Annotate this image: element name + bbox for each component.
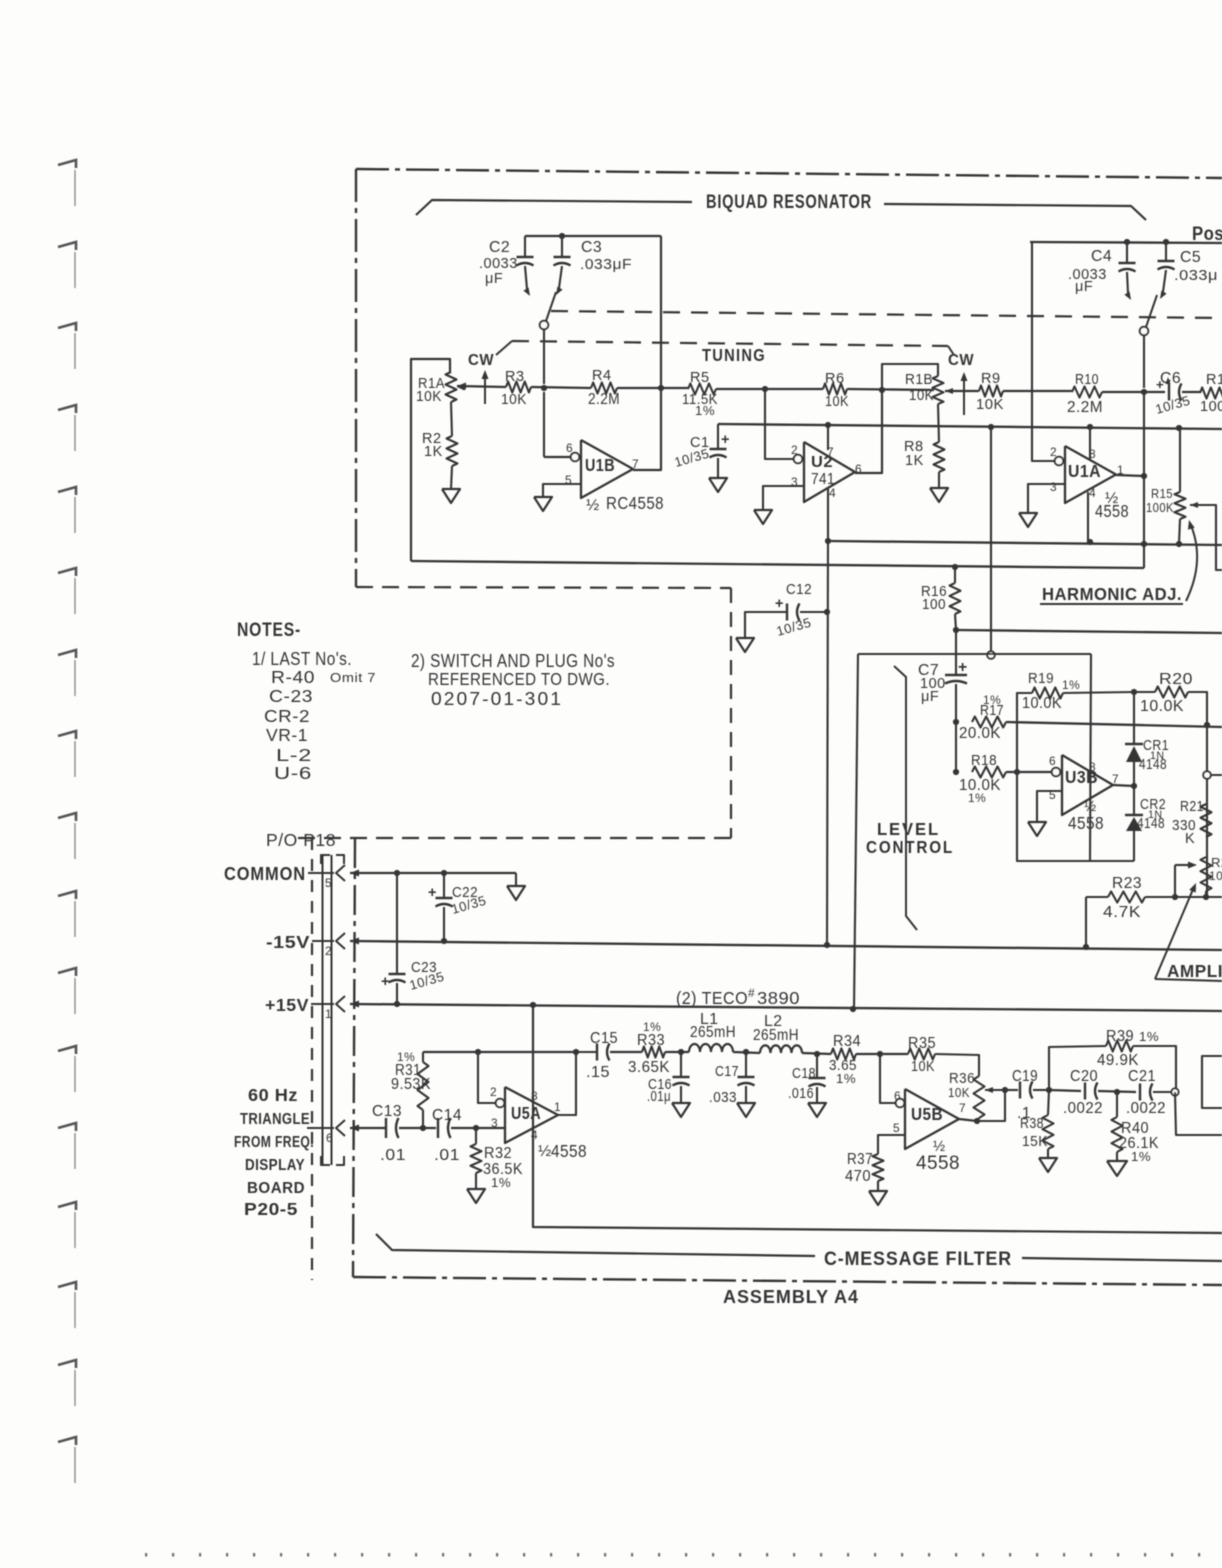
wire feedback rail (718, 424, 1222, 429)
label ASSEMBLY A4 (723, 1286, 859, 1307)
junction switch2 common on tuning line (1141, 389, 1147, 395)
ground R37 (869, 1181, 887, 1205)
svg-text:R17: R17 (980, 703, 1004, 719)
svg-text:.033μF: .033μF (580, 257, 632, 273)
svg-text:TUNING: TUNING (702, 345, 766, 365)
svg-text:1K: 1K (905, 453, 924, 469)
capacitor C15 (576, 1030, 618, 1081)
svg-text:μF: μF (485, 271, 503, 287)
capacitor C2 (479, 236, 534, 296)
wire harmonic adj output (956, 630, 1222, 633)
junction R23 drop to -15V (1083, 944, 1089, 950)
junction C22 bottom (441, 938, 447, 944)
svg-text:49.9K: 49.9K (1097, 1052, 1139, 1069)
svg-text:BOARD: BOARD (247, 1180, 305, 1197)
svg-text:CW: CW (948, 352, 974, 369)
label LEVEL CONTROL (866, 819, 954, 857)
resistor R21 (1172, 799, 1212, 847)
svg-text:C-23: C-23 (269, 686, 313, 706)
svg-text:+: + (721, 432, 730, 448)
heading BIQUAD RESONATOR with brace lines (416, 191, 1146, 220)
svg-text:.0022: .0022 (1126, 1100, 1166, 1117)
svg-text:9.53K: 9.53K (391, 1076, 431, 1093)
junction U1A output (1141, 473, 1147, 479)
svg-text:2: 2 (791, 443, 798, 457)
junction U2 pin4 rail to -15V (824, 942, 830, 948)
svg-text:1%: 1% (1131, 1149, 1151, 1164)
svg-text:R20: R20 (1159, 671, 1193, 688)
switch S1A lever and common (540, 292, 556, 384)
wire U5B non-inverting to R37 (878, 1135, 905, 1154)
wire U2 inverting input (765, 389, 793, 459)
diode CR1 (1125, 692, 1169, 786)
junction R31 bottom node (420, 1125, 426, 1131)
switch S1B lever and common (1140, 295, 1157, 388)
svg-text:10K: 10K (416, 389, 442, 405)
svg-text:4558: 4558 (1095, 501, 1129, 521)
svg-text:CW: CW (468, 352, 494, 369)
junction U1A pin8 (1087, 424, 1093, 430)
resistor R19 (1017, 671, 1134, 772)
svg-text:.033: .033 (709, 1090, 737, 1106)
op-amp U1B (565, 440, 664, 514)
resistor R4 (588, 368, 620, 408)
wire U5A feedback top (423, 1051, 576, 1053)
off-page component bracket (1202, 1056, 1222, 1108)
junction filter box corner (530, 1002, 536, 1008)
svg-text:1%: 1% (968, 791, 986, 805)
op-amp U5A (490, 1085, 587, 1161)
svg-text:470: 470 (845, 1168, 871, 1185)
pin4 rail (828, 541, 1222, 545)
wire R10-C6 (1102, 391, 1165, 393)
svg-text:4558: 4558 (551, 1141, 587, 1161)
ground R40 (1107, 1152, 1127, 1176)
wire switch2 to U1A output node (1143, 392, 1145, 568)
wire U1A pin4 drop (1087, 492, 1089, 543)
capacitor C12 (745, 582, 827, 639)
note 2 switch and plug numbers (411, 650, 615, 709)
svg-text:R5: R5 (690, 370, 710, 386)
resistor R18 (959, 753, 1006, 805)
svg-text:3890: 3890 (757, 988, 800, 1008)
svg-text:+: + (428, 885, 437, 901)
svg-text:4: 4 (531, 1128, 538, 1142)
wire -15V rail (350, 941, 1222, 950)
note 1 last numbers (252, 648, 376, 783)
wire U5B inverting input (880, 1054, 895, 1103)
capacitor C20 (1063, 1068, 1103, 1117)
svg-text:6: 6 (894, 1089, 901, 1103)
resistor R38 (1020, 1090, 1054, 1150)
wire R6-R1B (847, 389, 934, 390)
op-amp U5B (893, 1089, 966, 1174)
wire R4-R5 (617, 387, 688, 389)
svg-text:R19: R19 (1028, 671, 1054, 687)
svg-text:60 Hz: 60 Hz (248, 1085, 298, 1105)
svg-text:R9: R9 (981, 371, 1001, 387)
junction output to pin4 rail (1141, 541, 1147, 547)
svg-text:10K: 10K (909, 388, 934, 404)
wire supply link to +15V (854, 654, 858, 1009)
svg-text:265mH: 265mH (690, 1024, 736, 1041)
wire resonator feedback bottom (411, 561, 1144, 568)
resistor R5 (682, 370, 718, 418)
svg-text:Omit 7: Omit 7 (330, 670, 376, 685)
junction U5A pin2 drop (475, 1049, 481, 1055)
op-amp U3B (1049, 754, 1119, 833)
wire U1A inverting input riser (1030, 242, 1054, 461)
wire signal drop to level control (990, 427, 992, 651)
svg-text:μF: μF (921, 689, 939, 705)
svg-text:R37: R37 (847, 1151, 873, 1168)
svg-text:U5A: U5A (511, 1103, 541, 1123)
svg-text:ASSEMBLY A4: ASSEMBLY A4 (723, 1286, 859, 1307)
svg-text:R18: R18 (971, 753, 997, 769)
svg-text:1K: 1K (424, 444, 443, 460)
svg-text:LEVEL: LEVEL (877, 819, 940, 839)
junction R19/R20/CR1 (1131, 689, 1137, 695)
svg-text:NOTES-: NOTES- (237, 619, 301, 641)
junction U1B output node on tuning line (658, 385, 664, 391)
svg-text:1: 1 (554, 1100, 561, 1114)
pot R15 wiper (1190, 502, 1222, 570)
svg-text:R32: R32 (484, 1145, 512, 1162)
svg-text:R39: R39 (1106, 1028, 1134, 1045)
resistor R31 (391, 1050, 431, 1128)
harmonic adj pointer arrow (1186, 520, 1197, 601)
junction R17 line to R20/R21 (1204, 722, 1210, 728)
notes heading (237, 619, 301, 641)
junction R22 wiper to R23 line (1172, 894, 1178, 900)
resistor R35 (908, 1035, 979, 1076)
junction U2 pin7 (825, 422, 831, 428)
ground R38 (1039, 1149, 1057, 1172)
wire biquad2 top (1030, 242, 1222, 243)
pin 5 COMMON (224, 863, 359, 890)
heading POS (clipped) (1192, 223, 1222, 245)
resistor R20 (1134, 671, 1207, 897)
junction C4 top (1124, 239, 1130, 245)
ground U1A pin3 (1019, 513, 1037, 527)
capacitor C3 (554, 236, 633, 295)
svg-text:R-40: R-40 (271, 667, 315, 687)
junction C21/R39 output node (1171, 1088, 1178, 1095)
svg-text:1%: 1% (695, 403, 715, 418)
inductor L2 (753, 1013, 802, 1053)
CW arrow left (468, 352, 494, 404)
svg-text:741: 741 (811, 471, 835, 488)
svg-text:R1: R1 (1206, 372, 1222, 388)
wire C15 to R33 (610, 1051, 642, 1053)
svg-text:3: 3 (1050, 480, 1057, 494)
pot R1B top loop (882, 364, 938, 390)
svg-text:10K: 10K (976, 397, 1004, 413)
svg-text:0207-01-301: 0207-01-301 (431, 688, 563, 709)
svg-text:100: 100 (922, 597, 946, 613)
svg-text:C18: C18 (792, 1066, 816, 1082)
wire switch to U1B inverting (543, 392, 545, 457)
svg-text:R33: R33 (637, 1032, 665, 1049)
capacitor C23 (381, 873, 446, 1004)
svg-text:2: 2 (1050, 445, 1057, 459)
capacitor C14 (432, 1107, 462, 1164)
wire U5A inverting input (478, 1052, 495, 1103)
svg-text:AMPLI: AMPLI (1167, 961, 1222, 981)
wire 60Hz to C13 (350, 1127, 386, 1129)
svg-text:1%: 1% (836, 1071, 856, 1086)
svg-text:C19: C19 (1012, 1068, 1038, 1085)
svg-text:R34: R34 (833, 1033, 861, 1050)
capacitor C4 (1068, 242, 1136, 300)
wire R17 output line (1006, 722, 1222, 727)
svg-text:4148: 4148 (1139, 757, 1167, 773)
assembly boundary dashed left lower (311, 838, 313, 1280)
svg-text:½: ½ (586, 497, 600, 514)
junction U2 inverting node (762, 386, 768, 392)
pot R1A (411, 359, 465, 561)
svg-text:TRIANGLE: TRIANGLE (240, 1111, 310, 1128)
svg-text:C21: C21 (1128, 1068, 1156, 1085)
capacitor C16 (647, 1052, 690, 1105)
wire R34 to R35 node (856, 1053, 908, 1055)
svg-text:2: 2 (325, 944, 332, 958)
svg-text:3.65K: 3.65K (628, 1059, 670, 1076)
svg-text:+: + (958, 659, 968, 676)
resistor R17 (959, 693, 1006, 742)
assembly boundary notch right (730, 588, 732, 838)
svg-text:REFERENCED TO DWG.: REFERENCED TO DWG. (428, 669, 610, 689)
svg-text:HARMONIC ADJ.: HARMONIC ADJ. (1042, 584, 1182, 604)
junction C17 top (743, 1049, 749, 1055)
junction R18/R19 node (1014, 769, 1020, 775)
svg-text:U1A: U1A (1068, 461, 1101, 481)
resistor R40 (1112, 1092, 1160, 1164)
svg-text:1/ LAST No's.: 1/ LAST No's. (252, 648, 352, 669)
op-amp U2 (791, 442, 862, 502)
wire U5A output riser (558, 1052, 576, 1115)
svg-text:10.0K: 10.0K (1140, 698, 1184, 715)
svg-text:C3: C3 (581, 239, 602, 256)
junction U5A output to C15 (573, 1049, 579, 1055)
svg-text:(2) TECO: (2) TECO (676, 988, 748, 1008)
resistor R32 (471, 1128, 524, 1190)
capacitor C13 (372, 1103, 406, 1164)
svg-text:C5: C5 (1180, 249, 1201, 266)
diode CR2 (1125, 786, 1166, 861)
capacitor C21 (1126, 1068, 1171, 1117)
resistor R9 (976, 371, 1004, 413)
capacitor C22 (428, 873, 488, 941)
wire R3-R4 (531, 387, 591, 388)
wire U1B inverting input (544, 456, 570, 458)
assembly boundary chain line left (355, 169, 357, 587)
wire C14 to U5A pin3 (451, 1127, 505, 1129)
wire C20 to C21 (1098, 1091, 1136, 1092)
svg-text:4148: 4148 (1137, 816, 1165, 832)
svg-text:10.0K: 10.0K (1022, 695, 1062, 712)
svg-text:#: # (748, 986, 755, 1000)
svg-text:FROM FREQ.: FROM FREQ. (234, 1134, 314, 1151)
junction R16 bottom (953, 627, 959, 633)
svg-text:C15: C15 (590, 1030, 618, 1047)
svg-text:100: 100 (1200, 399, 1222, 415)
svg-text:2) SWITCH AND PLUG No's: 2) SWITCH AND PLUG No's (411, 650, 615, 671)
wire R33 to L1 (665, 1051, 689, 1053)
wire +15V drop to filter box (533, 1005, 1222, 1233)
svg-text:R35: R35 (908, 1035, 936, 1052)
svg-text:4558: 4558 (916, 1152, 960, 1174)
ground R32 (467, 1173, 485, 1203)
svg-text:R1B: R1B (905, 372, 933, 388)
wire biquad1 top (525, 235, 661, 237)
svg-text:100K: 100K (1146, 500, 1174, 515)
svg-text:3: 3 (491, 1116, 498, 1130)
wire U3B pin8 supply link (858, 653, 1091, 655)
svg-text:L-2: L-2 (276, 745, 312, 765)
capacitor C17 (709, 1052, 755, 1106)
pot R36 (948, 1071, 985, 1121)
svg-text:+: + (775, 596, 784, 612)
svg-text:10K: 10K (501, 392, 527, 408)
svg-text:5: 5 (325, 876, 332, 890)
wire output to wiper node (977, 1090, 1005, 1121)
capacitor C6 (1154, 370, 1200, 417)
wire feedback loop bottom (1017, 772, 1134, 861)
level control brace (894, 666, 917, 930)
resistor R39 feedback (1049, 1028, 1176, 1092)
junction C23 column top (394, 870, 400, 876)
ground U3B pin5 (1028, 822, 1046, 836)
pin 2 -15V (266, 932, 359, 958)
svg-text:VR-1: VR-1 (266, 725, 308, 745)
pot R36 wiper (985, 1087, 1005, 1093)
resistor R10 (1067, 372, 1103, 416)
svg-text:.016: .016 (788, 1086, 814, 1102)
svg-text:C12: C12 (786, 582, 812, 598)
pot R1B wiper arrow (945, 388, 979, 394)
resistor R3 (501, 369, 531, 408)
svg-text:R6: R6 (825, 371, 845, 387)
junction C18 top (814, 1051, 820, 1057)
svg-text:+: + (381, 974, 390, 990)
svg-text:1: 1 (325, 1007, 332, 1021)
wire U3B output (1113, 785, 1134, 786)
ground C16 (672, 1103, 690, 1117)
junction level-control drop (988, 424, 994, 430)
junction R16 top (952, 564, 958, 570)
svg-text:6: 6 (1049, 754, 1056, 768)
svg-text:20.0K: 20.0K (959, 725, 1001, 742)
svg-text:C4: C4 (1091, 248, 1112, 265)
ground R8 (930, 472, 948, 502)
terminal circle on supply link (987, 651, 995, 659)
svg-text:15K: 15K (1022, 1134, 1048, 1150)
svg-text:U1B: U1B (585, 455, 615, 475)
assembly boundary notch bottom (294, 837, 731, 839)
svg-text:.01: .01 (380, 1147, 406, 1164)
svg-text:P/O P18: P/O P18 (266, 830, 336, 850)
junction R6/U2 output riser (879, 387, 885, 393)
svg-text:BIQUAD RESONATOR: BIQUAD RESONATOR (706, 191, 872, 213)
pot R1B (905, 372, 944, 404)
resistor R8 (904, 439, 945, 472)
connector P18 body (266, 830, 344, 1165)
assembly boundary chain line top (356, 169, 1222, 178)
assembly boundary chain bottom (353, 1277, 1222, 1285)
svg-text:4.7K: 4.7K (1103, 904, 1141, 921)
svg-text:RC4558: RC4558 (606, 493, 664, 513)
svg-text:-15V: -15V (266, 932, 310, 952)
svg-text:+15V: +15V (265, 995, 309, 1015)
svg-text:7: 7 (959, 1101, 966, 1115)
svg-text:.0022: .0022 (1063, 1100, 1103, 1117)
wire L1 to L2 (733, 1052, 760, 1053)
svg-text:4: 4 (829, 486, 836, 500)
wire U2 output riser (855, 390, 882, 473)
svg-text:P20-5: P20-5 (244, 1199, 298, 1219)
svg-text:10K: 10K (911, 1059, 935, 1075)
svg-text:K: K (1185, 831, 1195, 847)
tuning gang dashed link upper (551, 311, 1222, 318)
ground C1 (709, 478, 727, 492)
wire C13-C14 (399, 1127, 436, 1129)
svg-text:.01: .01 (434, 1147, 460, 1164)
ground U2 pin3 (754, 510, 772, 524)
svg-text:C13: C13 (372, 1103, 402, 1120)
wire U1B output riser (633, 236, 661, 470)
svg-text:R15: R15 (1151, 486, 1173, 501)
svg-text:.01μ: .01μ (647, 1089, 671, 1105)
svg-text:10K: 10K (825, 394, 849, 410)
pot R22 wiper arrow (1175, 862, 1197, 898)
svg-text:U-6: U-6 (274, 763, 312, 783)
junction U2 pin4 rail corner (825, 538, 831, 544)
svg-text:R21: R21 (1180, 799, 1204, 815)
ground R2 (442, 466, 460, 503)
pot R1A wiper arrow (457, 383, 506, 390)
capacitor C19 (1005, 1068, 1049, 1122)
wire L2 to R34 (802, 1053, 831, 1054)
pot R22 (clipped) (1201, 855, 1222, 897)
ground C18 (808, 1103, 826, 1117)
junction C12 (824, 609, 830, 615)
capacitor C18 (788, 1054, 826, 1103)
junction C23 bottom (394, 1001, 400, 1007)
pot R15 (1146, 428, 1186, 544)
capacitor C1 (673, 424, 730, 478)
svg-text:C20: C20 (1070, 1068, 1098, 1085)
svg-text:2: 2 (490, 1085, 497, 1099)
wire U2 pin4 to -15V (827, 540, 828, 945)
resistor R23 (1086, 875, 1222, 921)
svg-text:2.2M: 2.2M (588, 391, 620, 408)
label TUNING (702, 345, 766, 365)
label C-MESSAGE FILTER with brace (376, 1234, 1222, 1270)
svg-text:U2: U2 (811, 454, 833, 471)
wire U5B output (959, 1119, 977, 1121)
wire U2 pin7 supply stub (827, 425, 829, 450)
svg-text:4558: 4558 (1068, 813, 1104, 833)
svg-text:C2: C2 (489, 239, 510, 256)
junction R40 top (1114, 1089, 1120, 1095)
svg-text:2.2M: 2.2M (1067, 399, 1103, 416)
junction R15 bottom (1176, 541, 1182, 547)
junction R15 top (1176, 425, 1182, 431)
wire R23 to -15V (1085, 897, 1087, 947)
svg-text:COMMON: COMMON (224, 863, 306, 884)
ground COMMON (507, 873, 525, 900)
